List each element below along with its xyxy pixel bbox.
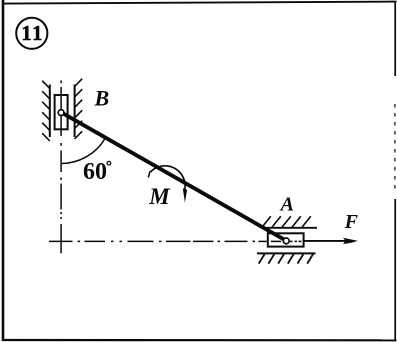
frame left border xyxy=(2,0,5,341)
slider block at A xyxy=(268,233,304,246)
rod BA xyxy=(61,112,286,240)
left guide wall at B xyxy=(49,85,51,138)
60 degree angle arc xyxy=(61,138,105,163)
upper surface hatching xyxy=(262,216,311,227)
moment arc start tick xyxy=(148,171,150,177)
force F line xyxy=(304,240,346,242)
svg-text:F: F xyxy=(344,211,359,233)
pin joint at B xyxy=(58,110,64,116)
moment arc M xyxy=(150,166,185,190)
left wall hatching xyxy=(42,81,50,141)
figure number circle 11 xyxy=(16,18,47,49)
svg-text:M: M xyxy=(148,184,171,209)
moment arc arrowhead xyxy=(183,188,187,202)
horizontal centerline (dash-dot through A) xyxy=(49,240,267,242)
svg-text:A: A xyxy=(279,194,294,216)
lower surface hatching xyxy=(259,253,314,263)
frame right border (faded dashed middle) xyxy=(394,104,396,190)
centerline marks inside slider A xyxy=(271,240,302,242)
degree symbol xyxy=(107,161,111,165)
lower guide surface at A xyxy=(257,252,316,254)
frame top border xyxy=(3,2,397,4)
upper guide surface at A xyxy=(261,227,318,229)
frame bottom border xyxy=(3,339,397,341)
slider block at B xyxy=(55,95,68,129)
svg-text:60: 60 xyxy=(83,159,107,185)
vertical centerline (dash-dot through B) xyxy=(60,81,62,254)
svg-text:B: B xyxy=(94,86,110,111)
right guide wall at B xyxy=(74,85,76,138)
centerline dash inside slider B xyxy=(60,95,62,129)
pin joint at A xyxy=(283,238,289,244)
svg-text:11: 11 xyxy=(21,21,44,45)
right wall hatching xyxy=(75,79,83,139)
frame right border (solid top piece) xyxy=(394,2,396,77)
frame right border (solid bottom piece) xyxy=(394,199,396,341)
force F arrowhead xyxy=(343,238,358,244)
